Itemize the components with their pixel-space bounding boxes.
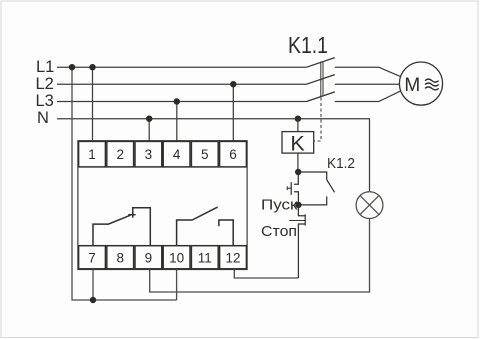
wire L2 drop to terminal 6 — [232, 84, 234, 141]
motor M circle — [399, 62, 442, 105]
terminal box 11 — [191, 246, 218, 269]
contact K1.2 arm — [327, 180, 335, 193]
button Stop upper lead — [298, 205, 305, 216]
svg-text:Стоп: Стоп — [261, 223, 297, 240]
coil K box — [282, 132, 314, 154]
svg-text:11: 11 — [198, 250, 212, 265]
contactor K1.1 pole L2 arm — [307, 75, 335, 85]
button Stop lower lead — [298, 224, 305, 278]
terminal box 2 — [107, 141, 134, 167]
terminal box 3 — [135, 141, 162, 167]
wire terminal 7 to bottom bus — [92, 270, 94, 301]
terminal box 1 — [79, 141, 106, 167]
terminal box 12 — [220, 246, 247, 269]
svg-text:2: 2 — [116, 147, 124, 162]
coil K wire from N — [297, 119, 299, 132]
wire L1 left drop to bottom bus — [72, 67, 177, 300]
wire motor phase top — [335, 67, 400, 76]
relay contact 9 fixed — [133, 208, 151, 246]
button Pusk upper lead — [294, 172, 298, 184]
wire L3 drop to terminal 4 — [176, 102, 178, 142]
wire coil K to node — [297, 153, 299, 172]
terminal box 9 — [135, 246, 162, 269]
node dot between buttons — [295, 202, 301, 208]
node dot L1 left drop — [69, 64, 75, 70]
wire L3 line — [57, 101, 307, 103]
svg-text:K1.1: K1.1 — [288, 32, 328, 58]
button Stop bridge — [304, 214, 306, 225]
svg-text:7: 7 — [88, 250, 96, 265]
svg-text:N: N — [37, 109, 49, 127]
node dot bottom bus — [90, 297, 96, 303]
wire L2 line — [57, 83, 307, 85]
wire motor phase mid — [335, 83, 400, 85]
node dot below coil — [295, 169, 301, 175]
terminal box 5 — [191, 141, 218, 167]
wire terminal 9 to lamp bottom — [150, 219, 370, 292]
contact K1.2 top lead — [298, 172, 327, 180]
contactor K1.1 pole L3 arm — [307, 92, 335, 102]
button Pusk actuator — [287, 187, 291, 189]
svg-text:K1.2: K1.2 — [327, 155, 355, 172]
svg-text:4: 4 — [173, 147, 181, 162]
button Pusk bridge — [290, 182, 292, 195]
contact K1.2 bottom lead — [298, 196, 326, 205]
button Pusk lower lead — [294, 192, 298, 205]
svg-text:9: 9 — [145, 250, 153, 265]
wire N line to lamp top — [57, 119, 370, 192]
node dot L2 terminal 6 — [230, 81, 236, 87]
svg-text:1: 1 — [88, 147, 96, 162]
svg-text:6: 6 — [229, 147, 237, 162]
terminal box 10 — [163, 246, 190, 269]
svg-text:Пуск: Пуск — [261, 196, 298, 213]
lamp circle — [356, 192, 383, 219]
lamp cross — [360, 196, 379, 215]
svg-text:L3: L3 — [36, 92, 54, 110]
relay contact 7-9 moving arm — [93, 215, 130, 246]
linkage dashed to coil K — [314, 98, 321, 142]
svg-text:8: 8 — [116, 250, 124, 265]
button Stop actuator — [289, 220, 305, 222]
relay contact 10-12 moving arm — [177, 207, 218, 246]
svg-text:M: M — [404, 75, 420, 96]
wire L1 line — [57, 66, 307, 68]
node dot N terminal 3 — [146, 116, 152, 122]
svg-text:3: 3 — [145, 147, 153, 162]
relay contact 12 fixed — [219, 220, 233, 246]
svg-text:12: 12 — [225, 250, 240, 265]
wire motor phase bottom — [335, 91, 400, 101]
relay contact 7-9 tip tick — [128, 214, 135, 216]
contactor K1.1 pole L1 arm — [307, 58, 335, 68]
node dot L1 terminal 1 — [89, 64, 95, 70]
relay block outline — [78, 141, 247, 270]
svg-text:L1: L1 — [36, 58, 54, 76]
terminal box 4 — [163, 141, 190, 167]
terminal box 7 — [79, 246, 106, 269]
svg-text:10: 10 — [169, 250, 184, 265]
node dot N to coil K — [295, 116, 301, 122]
terminal box 8 — [107, 246, 134, 269]
wire N drop to terminal 3 — [148, 119, 150, 141]
motor triple tilde — [425, 79, 439, 82]
wire terminal 12 to stop button — [234, 270, 298, 279]
wire L1 drop to terminal 1 — [92, 67, 94, 141]
svg-text:5: 5 — [201, 147, 209, 162]
svg-text:K: K — [290, 131, 305, 155]
terminal box 6 — [220, 141, 247, 167]
svg-text:L2: L2 — [36, 75, 54, 93]
wire terminal 10 drop — [176, 270, 178, 301]
contactor K1.1 linkage bar — [320, 62, 322, 97]
node dot L3 terminal 4 — [174, 98, 180, 104]
